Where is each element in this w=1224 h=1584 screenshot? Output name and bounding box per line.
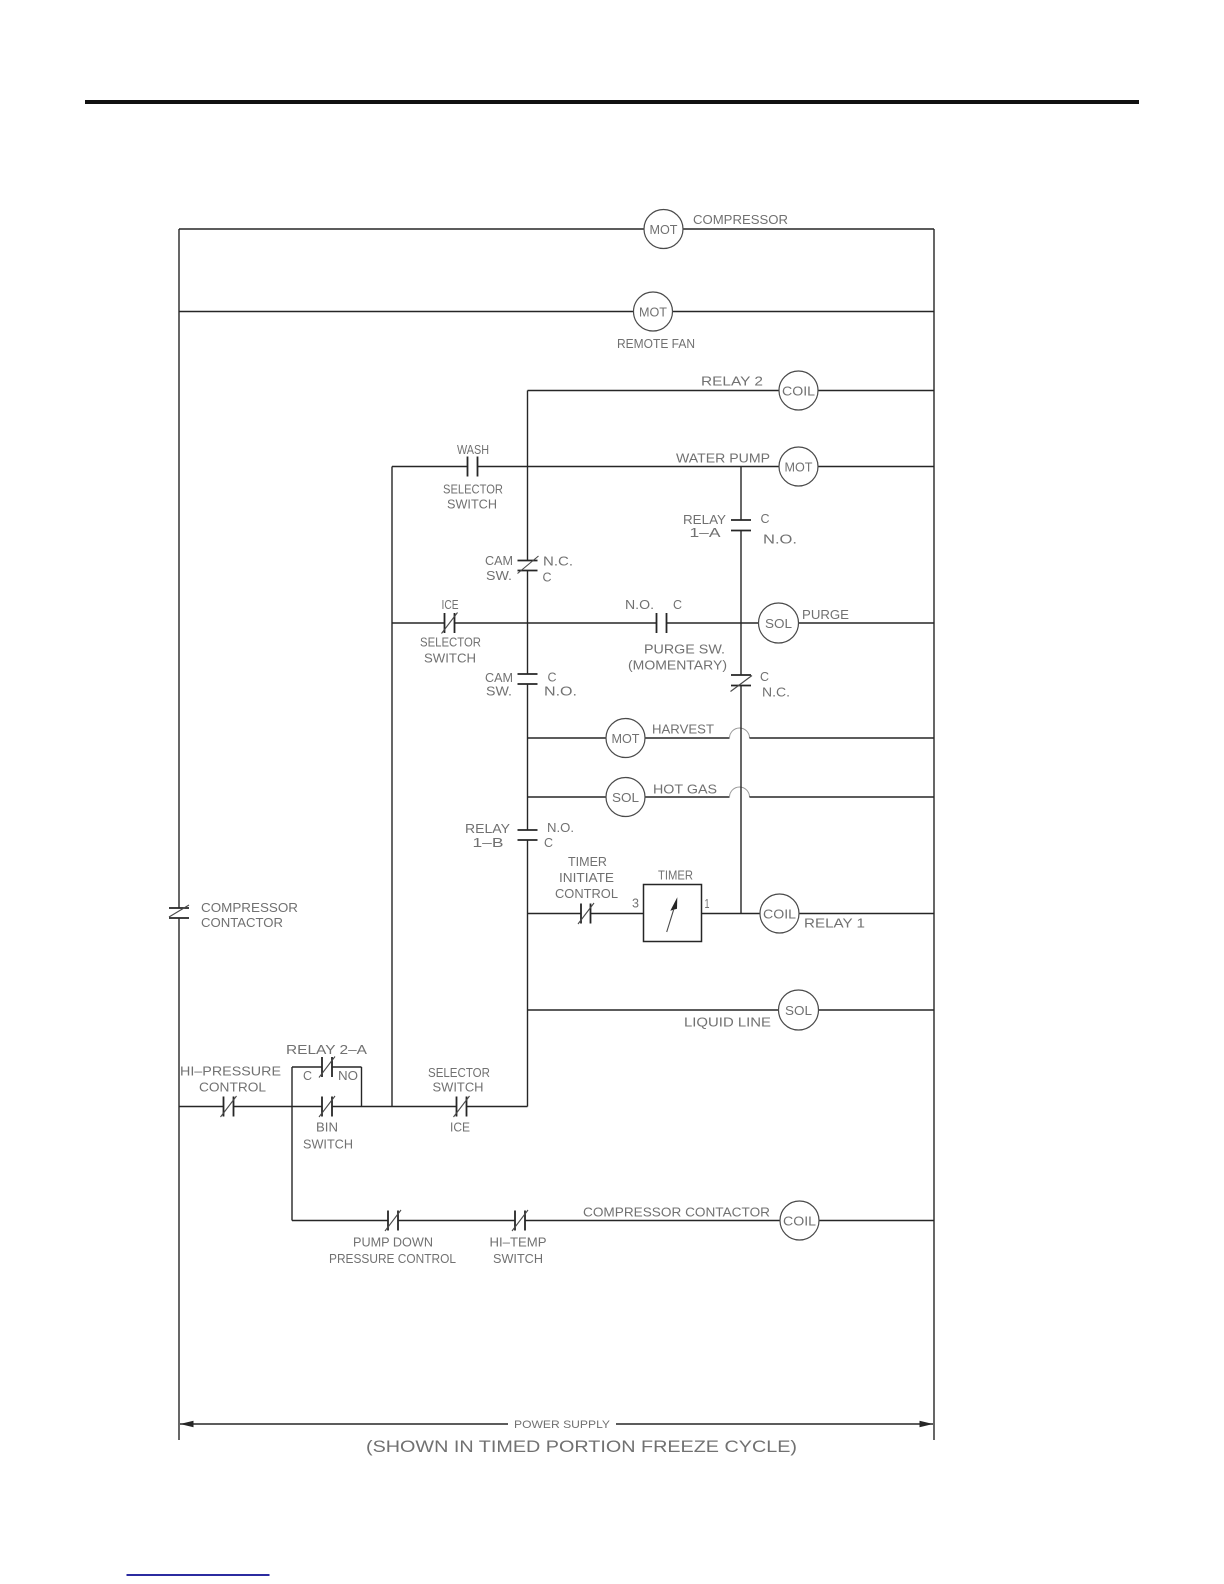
svg-text:RELAY 2–A: RELAY 2–A xyxy=(286,1042,367,1057)
solenoid SOL liquid line xyxy=(684,990,819,1030)
svg-text:NO: NO xyxy=(338,1068,358,1083)
vertical branch V4 from rung 4 down to rung 8 xyxy=(740,467,742,914)
contact PURGE SW. momentary (N.O.) xyxy=(625,597,727,673)
svg-text:N.O.: N.O. xyxy=(544,684,577,699)
svg-text:RELAY 1: RELAY 1 xyxy=(804,916,865,931)
svg-text:INITIATE: INITIATE xyxy=(559,870,614,885)
left rail (power supply L1) xyxy=(178,229,180,1440)
vertical branch V6 down to rung 11 xyxy=(291,1107,293,1221)
svg-text:SWITCH: SWITCH xyxy=(424,651,476,666)
svg-text:ICE: ICE xyxy=(450,1120,470,1135)
svg-text:CONTROL: CONTROL xyxy=(555,886,618,901)
rung 3 wire xyxy=(528,390,935,392)
motor MOT water pump xyxy=(676,447,818,486)
svg-text:HI–PRESSURE: HI–PRESSURE xyxy=(180,1064,281,1079)
svg-text:TIMER: TIMER xyxy=(658,868,693,883)
rung 11 wire xyxy=(292,1220,934,1222)
contact TIMER INITIATE CONTROL (N.C.) xyxy=(555,854,618,924)
svg-text:C: C xyxy=(303,1068,312,1083)
svg-text:N.C.: N.C. xyxy=(543,554,573,569)
vertical branch V3 from rung 3 down to rung 10 xyxy=(527,391,529,1107)
rung 5 wire xyxy=(392,622,934,624)
vertical branch V5 from rung 4 left end down to rung 10 xyxy=(391,467,393,1107)
coil COMPRESSOR CONTACTOR xyxy=(583,1201,819,1240)
svg-text:3: 3 xyxy=(632,896,639,911)
svg-text:C: C xyxy=(760,669,769,684)
rung 6 harvest wire with jump over vertical xyxy=(528,728,935,738)
svg-text:WATER PUMP: WATER PUMP xyxy=(676,451,770,466)
contact CAM SW. (N.O.) on V3 xyxy=(485,670,577,699)
header rule xyxy=(85,100,1139,104)
contact ICE selector switch (N.C.) xyxy=(420,597,481,666)
rung 8 timer wire xyxy=(528,913,935,915)
right rail (power supply L2) xyxy=(933,229,935,1440)
contact RELAY 1-A (N.O.) on V4 xyxy=(683,511,797,547)
svg-text:C: C xyxy=(543,570,552,585)
svg-text:PURGE: PURGE xyxy=(802,607,849,622)
timer TIMER box with pins 3 and 1 xyxy=(632,868,710,942)
motor MOT harvest xyxy=(606,719,714,758)
solenoid SOL hot gas xyxy=(606,778,717,817)
svg-text:MOT: MOT xyxy=(785,460,813,475)
svg-text:PUMP DOWN: PUMP DOWN xyxy=(353,1235,433,1250)
rung 2 wire xyxy=(179,311,934,313)
svg-text:CAM: CAM xyxy=(485,553,513,568)
contact CAM SW. (N.C.) on V3 xyxy=(485,553,573,585)
svg-text:SWITCH: SWITCH xyxy=(447,497,497,512)
svg-text:ICE: ICE xyxy=(442,597,459,612)
svg-text:SW.: SW. xyxy=(486,684,512,699)
svg-text:SW.: SW. xyxy=(486,568,512,583)
svg-text:C: C xyxy=(544,835,553,850)
svg-text:(SHOWN IN TIMED PORTION FREEZE: (SHOWN IN TIMED PORTION FREEZE CYCLE) xyxy=(366,1438,797,1456)
svg-text:COMPRESSOR CONTACTOR: COMPRESSOR CONTACTOR xyxy=(583,1205,770,1220)
caption (SHOWN IN TIMED PORTION FREEZE CYCLE) xyxy=(366,1438,797,1456)
svg-text:C: C xyxy=(673,597,682,612)
svg-text:N.O.: N.O. xyxy=(763,532,797,547)
rung 10 wire xyxy=(179,1106,528,1108)
coil RELAY 1 xyxy=(760,894,865,933)
rung 7 hot gas wire with jump over vertical xyxy=(528,787,935,797)
svg-text:TIMER: TIMER xyxy=(568,854,607,869)
svg-text:N.O.: N.O. xyxy=(625,597,654,612)
svg-text:1: 1 xyxy=(705,896,710,911)
svg-text:COMPRESSOR: COMPRESSOR xyxy=(693,212,788,227)
coil RELAY 2 xyxy=(701,371,818,410)
svg-text:SOL: SOL xyxy=(785,1003,812,1018)
contact SELECTOR SWITCH ICE (N.C.) xyxy=(428,1065,490,1135)
contact COMPRESSOR CONTACTOR (N.C. on left rail) xyxy=(169,900,298,930)
rung 9 liquid line wire xyxy=(528,1009,935,1011)
solenoid SOL purge xyxy=(759,603,850,643)
rung 1 wire xyxy=(179,228,934,230)
svg-text:(MOMENTARY): (MOMENTARY) xyxy=(628,658,727,673)
svg-text:SWITCH: SWITCH xyxy=(433,1080,484,1095)
svg-text:N.C.: N.C. xyxy=(762,685,790,700)
contact HI-TEMP SWITCH (N.C.) xyxy=(490,1210,547,1266)
svg-text:POWER SUPPLY: POWER SUPPLY xyxy=(514,1419,611,1431)
contact RELAY 1-B (N.O.) on V3 xyxy=(465,820,574,850)
svg-text:MOT: MOT xyxy=(650,222,678,237)
power supply dimension line with arrowheads xyxy=(180,1419,933,1431)
svg-text:SELECTOR: SELECTOR xyxy=(420,635,481,650)
svg-text:SOL: SOL xyxy=(765,616,792,631)
svg-text:PRESSURE CONTROL: PRESSURE CONTROL xyxy=(329,1251,456,1266)
contact BIN SWITCH (N.C.) xyxy=(303,1096,353,1152)
svg-text:SOL: SOL xyxy=(612,790,639,805)
svg-text:MOT: MOT xyxy=(639,305,667,320)
svg-text:COIL: COIL xyxy=(763,907,796,922)
svg-text:SWITCH: SWITCH xyxy=(303,1137,353,1152)
bypass branch RELAY 2-A around bin switch xyxy=(292,1067,362,1107)
svg-text:HI–TEMP: HI–TEMP xyxy=(490,1235,547,1250)
svg-text:SELECTOR: SELECTOR xyxy=(428,1065,490,1080)
svg-text:LIQUID LINE: LIQUID LINE xyxy=(684,1015,771,1030)
svg-text:1–A: 1–A xyxy=(690,525,721,540)
svg-text:C: C xyxy=(548,670,557,685)
svg-text:SWITCH: SWITCH xyxy=(493,1251,543,1266)
svg-text:RELAY: RELAY xyxy=(465,821,510,836)
svg-text:RELAY 2: RELAY 2 xyxy=(701,374,763,389)
svg-text:WASH: WASH xyxy=(457,442,489,457)
contact PUMP DOWN PRESSURE CONTROL (N.C.) xyxy=(329,1210,456,1266)
svg-text:HARVEST: HARVEST xyxy=(652,722,714,737)
svg-text:C: C xyxy=(761,511,770,526)
contact RELAY 2-A (N.C.) xyxy=(286,1042,367,1083)
contact WASH selector switch (N.O.) xyxy=(443,442,503,512)
svg-text:BIN: BIN xyxy=(316,1120,338,1135)
svg-text:1–B: 1–B xyxy=(473,835,504,850)
svg-text:HOT GAS: HOT GAS xyxy=(653,782,717,797)
svg-text:N.O.: N.O. xyxy=(547,820,574,835)
svg-text:PURGE SW.: PURGE SW. xyxy=(644,642,725,657)
contact HI-PRESSURE CONTROL (N.C.) xyxy=(180,1064,281,1118)
svg-text:SELECTOR: SELECTOR xyxy=(443,482,503,497)
motor MOT remote fan xyxy=(617,292,695,351)
svg-text:COIL: COIL xyxy=(783,1214,816,1229)
svg-text:COIL: COIL xyxy=(782,384,815,399)
svg-text:CONTACTOR: CONTACTOR xyxy=(201,915,283,930)
footer link underline xyxy=(127,1574,270,1576)
motor MOT compressor xyxy=(644,210,788,249)
svg-text:REMOTE FAN: REMOTE FAN xyxy=(617,336,695,351)
svg-text:COMPRESSOR: COMPRESSOR xyxy=(201,900,298,915)
svg-text:CONTROL: CONTROL xyxy=(199,1080,266,1095)
contact RELAY 1-A (N.C.) on V4 xyxy=(731,669,791,700)
rung 4 wire xyxy=(392,466,934,468)
svg-text:MOT: MOT xyxy=(612,731,640,746)
